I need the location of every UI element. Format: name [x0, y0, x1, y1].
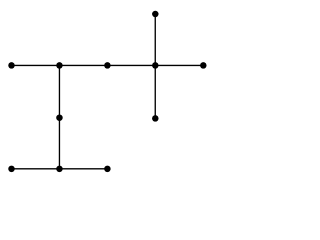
node E [152, 62, 159, 69]
wire: middle horizontal bus [12, 64, 204, 66]
node J [56, 166, 63, 173]
node C [56, 62, 63, 69]
node G [56, 114, 63, 121]
node K [104, 166, 111, 173]
node A [152, 11, 159, 18]
wire: left vertical [58, 65, 60, 168]
node F [200, 62, 207, 69]
wire: right vertical [154, 14, 156, 118]
node B [8, 62, 15, 69]
node D [104, 62, 111, 69]
wire: bottom horizontal [12, 168, 108, 170]
node I [8, 166, 15, 173]
node H [152, 115, 159, 122]
